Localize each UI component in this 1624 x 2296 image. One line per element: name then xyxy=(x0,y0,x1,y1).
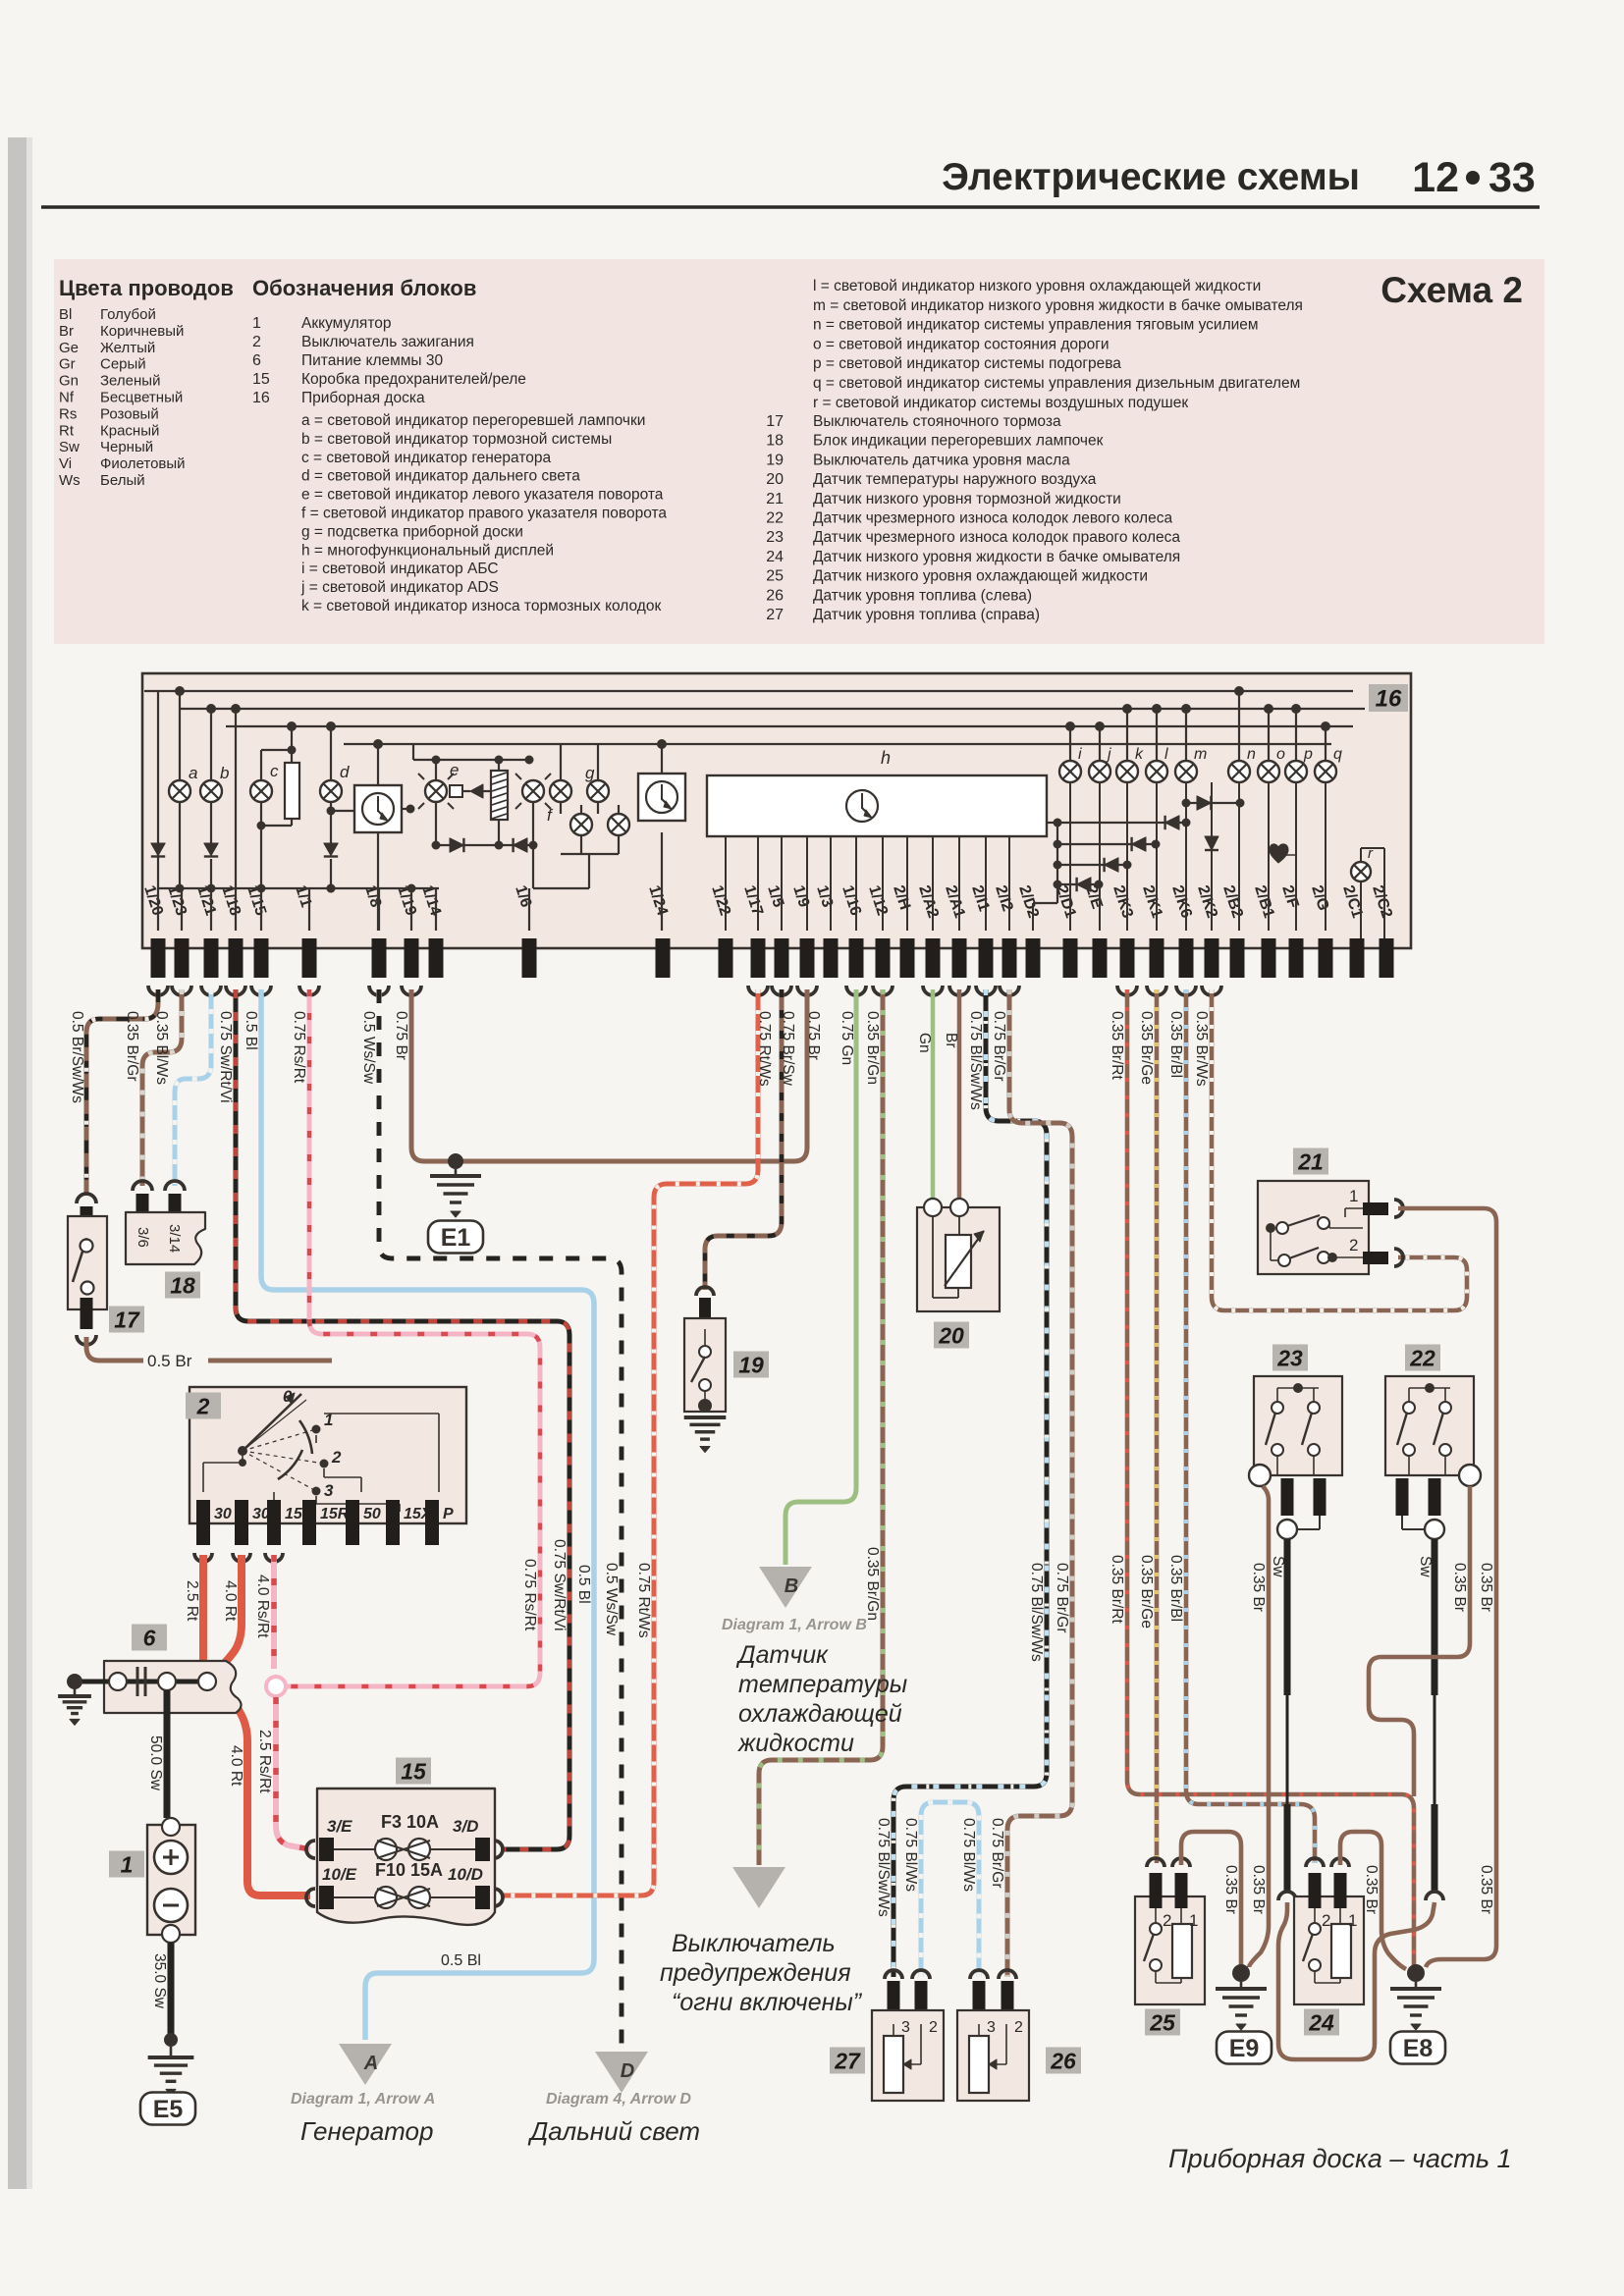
svg-text:15: 15 xyxy=(285,1506,303,1522)
svg-text:Ws: Ws xyxy=(59,472,81,489)
svg-text:a: a xyxy=(189,764,197,782)
svg-text:0.35 Br/Bl: 0.35 Br/Bl xyxy=(1167,1011,1184,1078)
svg-text:0.35 Br/Gn: 0.35 Br/Gn xyxy=(864,1011,881,1085)
svg-text:12: 12 xyxy=(1412,154,1459,201)
svg-text:b = световой индикатор тормозн: b = световой индикатор тормозной системы xyxy=(301,431,612,448)
svg-text:0.35 Br: 0.35 Br xyxy=(1250,1865,1267,1914)
svg-text:50.0 Sw: 50.0 Sw xyxy=(147,1735,164,1791)
svg-text:19: 19 xyxy=(738,1352,764,1377)
svg-text:0.35 Br: 0.35 Br xyxy=(1478,1865,1494,1914)
svg-text:4.0 Rt: 4.0 Rt xyxy=(228,1745,244,1787)
svg-text:35.0 Sw: 35.0 Sw xyxy=(151,1953,168,2009)
svg-text:0.75 Bl/Ws: 0.75 Bl/Ws xyxy=(960,1818,977,1892)
svg-text:Выключатель: Выключатель xyxy=(672,1930,836,1957)
svg-text:20: 20 xyxy=(766,471,784,488)
svg-text:23: 23 xyxy=(766,529,784,546)
svg-text:33: 33 xyxy=(1489,154,1536,201)
svg-text:D: D xyxy=(621,2060,634,2082)
svg-text:0.5 Bl: 0.5 Bl xyxy=(575,1565,592,1604)
svg-text:0.75 Sw/Rt/Vi: 0.75 Sw/Rt/Vi xyxy=(217,1011,234,1103)
svg-text:0.35 Br: 0.35 Br xyxy=(1363,1865,1380,1914)
svg-text:27: 27 xyxy=(766,607,784,623)
svg-text:0.75 Rt/Ws: 0.75 Rt/Ws xyxy=(635,1563,652,1638)
svg-text:n = световой индикатор системы: n = световой индикатор системы управлени… xyxy=(813,317,1259,334)
svg-text:0.5 Ws/Sw: 0.5 Ws/Sw xyxy=(603,1563,620,1636)
svg-text:0.35 Br/Ws: 0.35 Br/Ws xyxy=(1193,1011,1210,1087)
svg-text:25: 25 xyxy=(1149,2009,1176,2035)
svg-text:1: 1 xyxy=(121,1851,134,1877)
svg-text:E8: E8 xyxy=(1403,2035,1434,2062)
svg-text:0.35 Br/Bl: 0.35 Br/Bl xyxy=(1167,1555,1184,1622)
svg-text:0.75 Rt/Ws: 0.75 Rt/Ws xyxy=(756,1011,773,1087)
svg-text:0.35 Br/Gn: 0.35 Br/Gn xyxy=(864,1547,881,1621)
svg-text:k = световой индикатор износа: k = световой индикатор износа тормозных … xyxy=(301,598,661,614)
svg-text:Выключатель зажигания: Выключатель зажигания xyxy=(301,334,474,350)
svg-text:Коричневый: Коричневый xyxy=(100,323,184,340)
svg-text:n: n xyxy=(1247,746,1256,763)
svg-text:0.35 Br/Ge: 0.35 Br/Ge xyxy=(1138,1555,1155,1629)
svg-text:Vi: Vi xyxy=(59,455,72,472)
svg-text:h = многофункциональный диспле: h = многофункциональный дисплей xyxy=(301,542,554,559)
svg-text:3/14: 3/14 xyxy=(166,1224,183,1253)
svg-text:Электрические схемы: Электрические схемы xyxy=(942,156,1360,198)
svg-text:2: 2 xyxy=(1163,1911,1171,1930)
svg-text:Gr: Gr xyxy=(59,356,76,373)
svg-text:c = световой индикатор генерат: c = световой индикатор генератора xyxy=(301,450,551,466)
svg-text:жидкости: жидкости xyxy=(737,1730,854,1757)
svg-text:E9: E9 xyxy=(1229,2035,1260,2062)
svg-text:6: 6 xyxy=(252,352,261,369)
svg-text:17: 17 xyxy=(114,1307,140,1332)
svg-text:Цвета проводов: Цвета проводов xyxy=(59,276,234,300)
svg-text:Аккумулятор: Аккумулятор xyxy=(301,315,392,332)
svg-text:B: B xyxy=(785,1575,798,1597)
svg-text:“огни включены”: “огни включены” xyxy=(672,1989,863,2016)
svg-text:24: 24 xyxy=(1308,2009,1334,2035)
svg-text:k: k xyxy=(1135,746,1144,763)
svg-text:o = световой индикатор состоян: o = световой индикатор состояния дороги xyxy=(813,336,1110,352)
svg-text:15: 15 xyxy=(252,371,270,388)
svg-text:22: 22 xyxy=(766,510,784,527)
svg-text:Diagram 4, Arrow D: Diagram 4, Arrow D xyxy=(546,2091,691,2108)
svg-text:Датчик низкого уровня жидкости: Датчик низкого уровня жидкости в бачке о… xyxy=(813,549,1180,565)
svg-text:Зеленый: Зеленый xyxy=(100,373,160,390)
svg-text:Датчик: Датчик xyxy=(735,1641,829,1669)
svg-text:0.75 Br: 0.75 Br xyxy=(805,1011,822,1060)
svg-text:Серый: Серый xyxy=(100,356,146,373)
svg-text:Выключатель стояночного тормоз: Выключатель стояночного тормоза xyxy=(813,413,1061,430)
svg-text:Датчик чрезмерного износа коло: Датчик чрезмерного износа колодок левого… xyxy=(813,510,1172,527)
svg-text:2: 2 xyxy=(1322,1911,1330,1930)
svg-text:Генератор: Генератор xyxy=(300,2116,433,2146)
svg-text:4.0 Rt: 4.0 Rt xyxy=(222,1580,239,1622)
svg-text:Желтый: Желтый xyxy=(100,340,155,356)
svg-text:3/6: 3/6 xyxy=(135,1227,151,1248)
svg-text:g: g xyxy=(585,764,595,782)
svg-text:0.35 Br/Gr: 0.35 Br/Gr xyxy=(124,1011,140,1082)
svg-text:Приборная доска – часть 1: Приборная доска – часть 1 xyxy=(1168,2144,1512,2173)
svg-text:1: 1 xyxy=(1348,1911,1357,1930)
svg-text:2: 2 xyxy=(929,2019,938,2036)
svg-text:l = световой индикатор низкого: l = световой индикатор низкого уровня ох… xyxy=(813,278,1261,294)
svg-text:h: h xyxy=(881,748,891,768)
svg-text:Датчик уровня топлива (слева): Датчик уровня топлива (слева) xyxy=(813,587,1032,604)
svg-text:50: 50 xyxy=(363,1506,381,1522)
svg-text:E5: E5 xyxy=(153,2096,184,2123)
svg-text:Датчик низкого уровня охлаждаю: Датчик низкого уровня охлаждающей жидкос… xyxy=(813,568,1148,585)
svg-text:p: p xyxy=(1303,746,1313,763)
svg-text:температуры: температуры xyxy=(738,1671,907,1698)
svg-text:Gn: Gn xyxy=(916,1033,933,1053)
svg-text:Красный: Красный xyxy=(100,422,159,439)
svg-text:Датчик чрезмерного износа коло: Датчик чрезмерного износа колодок правог… xyxy=(813,529,1180,546)
svg-text:Бесцветный: Бесцветный xyxy=(100,390,183,406)
svg-text:P: P xyxy=(443,1506,454,1522)
svg-text:Черный: Черный xyxy=(100,439,153,455)
svg-text:Обозначения блоков: Обозначения блоков xyxy=(252,276,476,300)
svg-text:0.5 Bl: 0.5 Bl xyxy=(243,1011,259,1050)
svg-text:0.5 Br/Sw/Ws: 0.5 Br/Sw/Ws xyxy=(69,1011,85,1103)
svg-text:3/D: 3/D xyxy=(453,1817,478,1836)
svg-text:Rs: Rs xyxy=(59,405,77,422)
svg-text:Датчик низкого уровня тормозно: Датчик низкого уровня тормозной жидкости xyxy=(813,491,1121,507)
svg-text:4.0 Rs/Rt: 4.0 Rs/Rt xyxy=(254,1575,271,1638)
svg-text:Блок индикации перегоревших ла: Блок индикации перегоревших лампочек xyxy=(813,433,1104,450)
svg-text:0.75 Br: 0.75 Br xyxy=(393,1011,409,1060)
svg-text:Датчик температуры наружного в: Датчик температуры наружного воздуха xyxy=(813,471,1097,488)
svg-text:21: 21 xyxy=(766,491,784,507)
svg-text:1: 1 xyxy=(1349,1187,1358,1205)
svg-text:Приборная доска: Приборная доска xyxy=(301,390,425,406)
svg-text:q = световой индикатор системы: q = световой индикатор системы управлени… xyxy=(813,375,1300,392)
svg-text:6: 6 xyxy=(143,1625,156,1650)
svg-text:0.75 Br/Gr: 0.75 Br/Gr xyxy=(991,1011,1007,1082)
svg-text:0.5 Bl: 0.5 Bl xyxy=(441,1952,481,1969)
svg-text:0: 0 xyxy=(283,1387,293,1406)
svg-text:19: 19 xyxy=(766,452,784,468)
svg-text:Фиолетовый: Фиолетовый xyxy=(100,455,186,472)
svg-text:Розовый: Розовый xyxy=(100,405,159,422)
svg-text:24: 24 xyxy=(766,549,784,565)
svg-text:m: m xyxy=(1194,746,1207,763)
svg-text:3: 3 xyxy=(901,2019,910,2036)
svg-text:Sw: Sw xyxy=(1417,1556,1434,1577)
svg-text:2: 2 xyxy=(252,334,261,350)
svg-text:предупреждения: предупреждения xyxy=(660,1959,851,1987)
svg-text:F10 15A: F10 15A xyxy=(375,1860,443,1880)
svg-text:Ge: Ge xyxy=(59,340,79,356)
svg-text:15R: 15R xyxy=(320,1506,350,1522)
svg-text:30: 30 xyxy=(214,1506,232,1522)
svg-text:0.35 Br/Rt: 0.35 Br/Rt xyxy=(1109,1555,1125,1624)
svg-text:i = световой индикатор АБС: i = световой индикатор АБС xyxy=(301,561,499,577)
svg-text:25: 25 xyxy=(766,568,784,585)
svg-text:q: q xyxy=(1333,746,1342,763)
svg-text:i: i xyxy=(1078,746,1082,763)
svg-text:Bl: Bl xyxy=(59,306,72,323)
svg-text:Коробка предохранителей/реле: Коробка предохранителей/реле xyxy=(301,371,526,388)
svg-text:Датчик уровня топлива (справа): Датчик уровня топлива (справа) xyxy=(813,607,1040,623)
svg-text:0.75 Br/Sw: 0.75 Br/Sw xyxy=(780,1011,796,1087)
svg-text:Diagram 1, Arrow B: Diagram 1, Arrow B xyxy=(722,1617,867,1633)
svg-text:Голубой: Голубой xyxy=(100,306,156,323)
svg-text:3/E: 3/E xyxy=(327,1817,352,1836)
svg-text:0.35 Bl/Ws: 0.35 Bl/Ws xyxy=(153,1011,170,1085)
svg-text:10/E: 10/E xyxy=(322,1865,357,1884)
svg-text:10/D: 10/D xyxy=(448,1865,483,1884)
svg-text:0.35 Br: 0.35 Br xyxy=(1451,1563,1468,1612)
svg-text:2.5 Rt: 2.5 Rt xyxy=(184,1580,200,1622)
svg-text:18: 18 xyxy=(766,433,784,450)
svg-text:Gn: Gn xyxy=(59,373,79,390)
svg-text:0.75 Sw/Rt/Vi: 0.75 Sw/Rt/Vi xyxy=(551,1539,568,1631)
svg-text:c: c xyxy=(270,762,279,780)
svg-text:r = световой индикатор системы: r = световой индикатор системы воздушных… xyxy=(813,395,1188,411)
svg-text:Br: Br xyxy=(943,1033,959,1048)
svg-text:2: 2 xyxy=(1349,1236,1358,1255)
svg-text:27: 27 xyxy=(834,2048,861,2073)
svg-text:0.75 Bl/Ws: 0.75 Bl/Ws xyxy=(902,1818,919,1892)
svg-text:3: 3 xyxy=(324,1481,334,1500)
svg-text:2.5 Rs/Rt: 2.5 Rs/Rt xyxy=(256,1730,273,1793)
svg-text:Питание клеммы 30: Питание клеммы 30 xyxy=(301,352,443,369)
svg-text:2: 2 xyxy=(196,1393,210,1418)
svg-text:0.5 Br: 0.5 Br xyxy=(147,1352,192,1370)
svg-text:2: 2 xyxy=(331,1448,342,1467)
svg-text:Rt: Rt xyxy=(59,422,75,439)
svg-text:Nf: Nf xyxy=(59,390,75,406)
svg-text:Схема 2: Схема 2 xyxy=(1380,270,1523,310)
svg-text:0.75 Rs/Rt: 0.75 Rs/Rt xyxy=(291,1011,307,1084)
svg-text:21: 21 xyxy=(1297,1148,1324,1174)
svg-text:22: 22 xyxy=(1409,1345,1435,1370)
svg-text:0.75 Bl/Sw/Ws: 0.75 Bl/Sw/Ws xyxy=(1028,1563,1045,1662)
svg-text:Белый: Белый xyxy=(100,472,145,489)
svg-text:0.75 Gn: 0.75 Gn xyxy=(839,1011,855,1065)
svg-text:18: 18 xyxy=(170,1272,195,1298)
svg-text:Дальний свет: Дальний свет xyxy=(527,2116,700,2146)
svg-text:1: 1 xyxy=(252,315,261,332)
svg-text:26: 26 xyxy=(766,587,784,604)
svg-text:0.75 Bl/Sw/Ws: 0.75 Bl/Sw/Ws xyxy=(875,1818,892,1917)
svg-text:0.35 Br/Rt: 0.35 Br/Rt xyxy=(1109,1011,1125,1080)
svg-text:g = подсветка приборной доски: g = подсветка приборной доски xyxy=(301,523,523,540)
svg-text:Br: Br xyxy=(59,323,74,340)
svg-text:Выключатель датчика уровня мас: Выключатель датчика уровня масла xyxy=(813,452,1070,468)
svg-text:e = световой индикатор левого: e = световой индикатор левого указателя … xyxy=(301,487,664,504)
svg-text:1: 1 xyxy=(1189,1911,1198,1930)
svg-text:a = световой индикатор перегор: a = световой индикатор перегоревшей ламп… xyxy=(301,412,645,429)
svg-text:16: 16 xyxy=(252,390,270,406)
svg-text:F3 10A: F3 10A xyxy=(381,1812,439,1832)
svg-text:17: 17 xyxy=(766,413,784,430)
svg-text:l: l xyxy=(1164,746,1168,763)
svg-text:b: b xyxy=(220,764,229,782)
svg-text:0.75 Bl/Sw/Ws: 0.75 Bl/Sw/Ws xyxy=(967,1011,984,1110)
svg-text:Diagram 1, Arrow A: Diagram 1, Arrow A xyxy=(291,2091,435,2108)
svg-text:0.35 Br: 0.35 Br xyxy=(1222,1865,1239,1914)
svg-text:d: d xyxy=(340,763,350,781)
svg-text:p = световой индикатор системы: p = световой индикатор системы подогрева xyxy=(813,355,1121,372)
svg-text:E1: E1 xyxy=(441,1224,471,1252)
svg-text:o: o xyxy=(1276,746,1285,763)
svg-text:3: 3 xyxy=(987,2019,996,2036)
svg-text:A: A xyxy=(363,2053,378,2074)
svg-text:2: 2 xyxy=(1014,2019,1023,2036)
svg-text:0.75 Rs/Rt: 0.75 Rs/Rt xyxy=(521,1559,538,1631)
svg-text:16: 16 xyxy=(1376,686,1402,713)
svg-text:m = световой индикатор низкого: m = световой индикатор низкого уровня жи… xyxy=(813,297,1303,314)
svg-text:0.75 Br/Gr: 0.75 Br/Gr xyxy=(989,1818,1005,1889)
svg-text:0.75 Br/Gr: 0.75 Br/Gr xyxy=(1054,1563,1070,1633)
svg-text:j = световой индикатор ADS: j = световой индикатор ADS xyxy=(300,579,499,596)
svg-text:20: 20 xyxy=(938,1322,964,1348)
svg-text:Sw: Sw xyxy=(1270,1556,1286,1577)
svg-text:26: 26 xyxy=(1050,2048,1076,2073)
svg-text:0.35 Br: 0.35 Br xyxy=(1250,1563,1267,1612)
svg-text:15: 15 xyxy=(401,1758,427,1784)
svg-text:охлаждающей: охлаждающей xyxy=(738,1700,902,1728)
svg-text:0.5 Ws/Sw: 0.5 Ws/Sw xyxy=(360,1011,377,1085)
svg-text:0.35 Br/Ge: 0.35 Br/Ge xyxy=(1138,1011,1155,1085)
svg-text:d = световой индикатор дальнег: d = световой индикатор дальнего света xyxy=(301,468,580,485)
svg-text:23: 23 xyxy=(1276,1345,1303,1370)
svg-text:f = световой индикатор правого: f = световой индикатор правого указателя… xyxy=(301,506,667,522)
svg-text:Sw: Sw xyxy=(59,439,80,455)
svg-text:0.35 Br: 0.35 Br xyxy=(1478,1563,1494,1612)
